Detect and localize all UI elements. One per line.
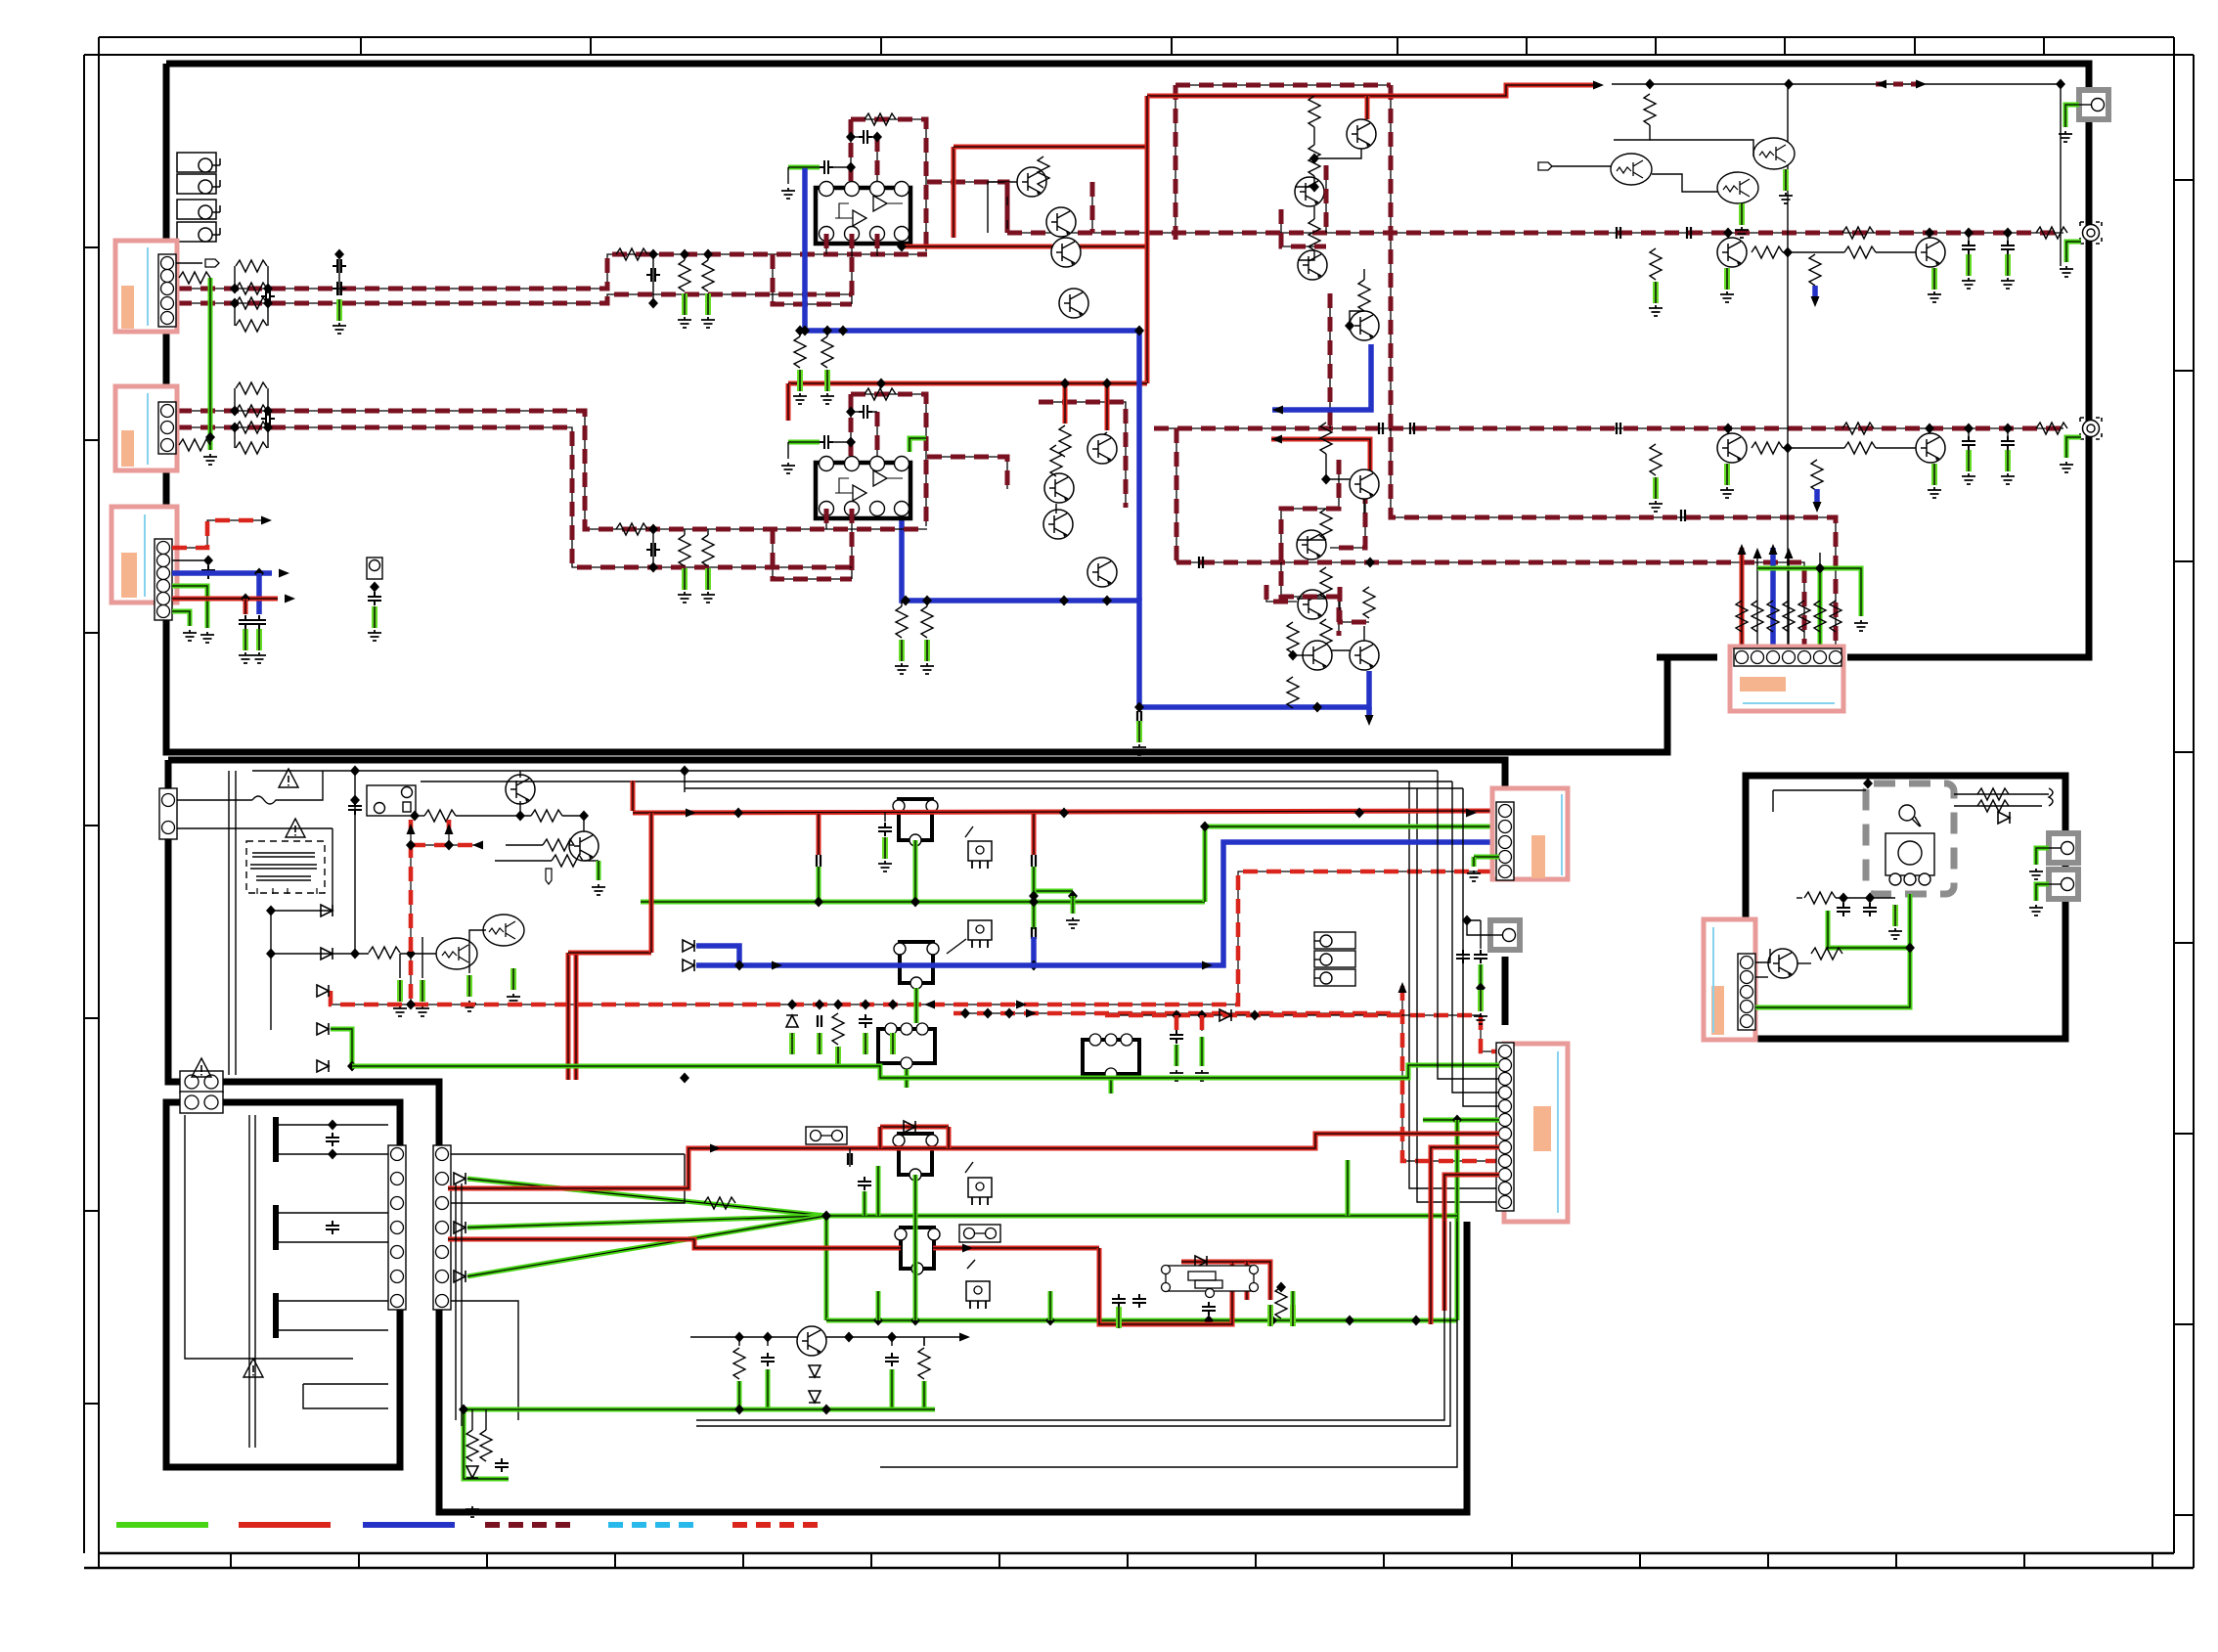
net (blue): [1814, 489, 1820, 507]
stub (green): [905, 1069, 909, 1088]
ground: [333, 323, 346, 334]
ground: [781, 463, 795, 473]
ground lead: [1292, 1305, 1294, 1326]
junction: [680, 766, 689, 777]
diode: [683, 940, 694, 952]
op-amp IC1: [816, 188, 910, 244]
net (red): [878, 1127, 883, 1148]
wire: [684, 529, 686, 535]
ground lead: [1655, 282, 1657, 303]
pin RY4: [885, 1023, 897, 1035]
connector CN3 box: [111, 507, 177, 603]
bead: [1137, 711, 1141, 723]
mains wires: [177, 771, 333, 1075]
stub: [2007, 428, 2009, 436]
resistor: [1842, 227, 1874, 239]
ground lead: [826, 370, 828, 391]
net drop (green) x1057: [1032, 867, 1037, 902]
junction: [795, 326, 805, 336]
arrow: [1026, 1009, 1037, 1018]
ground lead green: [1138, 721, 1140, 742]
capacitor: [1132, 1294, 1146, 1308]
warning mark: [244, 1359, 263, 1377]
junction: [1645, 79, 1655, 90]
junction: [922, 596, 932, 606]
ground: [463, 1001, 476, 1011]
junction: [1102, 379, 1112, 389]
net (dashed): [876, 412, 878, 457]
net (red): [1444, 1175, 1499, 1311]
net (blue): [696, 842, 1499, 965]
resistor: [543, 839, 574, 851]
junction: [1288, 650, 1298, 661]
net gnd bundle (green): [1818, 568, 1823, 651]
net heater R (red): [574, 953, 579, 1080]
net (green): [331, 1029, 352, 1066]
resistor: [1038, 156, 1049, 188]
capacitor C23: [859, 405, 872, 419]
junction: [263, 298, 273, 309]
capacitor: [333, 282, 346, 295]
net (red): [1105, 383, 1110, 430]
junction: [876, 379, 886, 389]
net L-in cold (dashed): [177, 294, 852, 303]
junction: [960, 1008, 970, 1019]
junction: [648, 562, 658, 573]
arrow: [1271, 435, 1282, 444]
resistor: [1309, 145, 1320, 176]
pin RY4: [901, 1023, 912, 1035]
ground lead: [2007, 450, 2009, 471]
resistor: [1804, 892, 1836, 904]
capacitor: [878, 823, 892, 836]
resistor bundle x1829: [1783, 601, 1795, 632]
net (red dashed): [1105, 1015, 1499, 1051]
stub: [926, 601, 928, 606]
junction: [1452, 1115, 1462, 1126]
net (blue): [696, 946, 739, 965]
junction: [350, 949, 360, 960]
ground: [252, 652, 266, 663]
switch SW1: [2049, 788, 2053, 806]
transistor Q201: [1768, 949, 1797, 978]
net (green): [1203, 826, 1208, 902]
salmon label CN4: [1740, 677, 1786, 692]
net IC2 loop (dashed): [773, 529, 852, 579]
junction: [266, 949, 276, 960]
relay RL2: [177, 174, 220, 194]
wire: [1614, 125, 1650, 140]
arrow: [962, 1244, 973, 1253]
wire: [872, 136, 877, 138]
capacitor: [368, 592, 381, 605]
resistor: [1358, 280, 1370, 311]
stub: [849, 1148, 851, 1167]
net (green): [464, 1407, 935, 1412]
ground: [2029, 869, 2043, 879]
transistor Q1085227: [1046, 207, 1076, 237]
wires: [1467, 920, 1490, 949]
net (dashed): [1281, 209, 1326, 246]
ground: [895, 663, 909, 674]
net (red): [172, 597, 278, 602]
junction: [230, 284, 240, 294]
ground: [1928, 487, 1941, 498]
junction: [1267, 1316, 1277, 1326]
relay RL3: [177, 200, 220, 219]
net (dashed): [876, 137, 878, 182]
ground: [1720, 291, 1734, 302]
transistor Q1083499: [1044, 473, 1074, 503]
pin RY5 common: [1105, 1068, 1117, 1080]
ground lead: [1933, 268, 1935, 290]
transistor Q1098310: [1059, 289, 1088, 318]
junction: [1784, 79, 1794, 90]
arrow: [285, 595, 295, 603]
net (dashed): [1091, 182, 1093, 233]
connector CN1 box: [115, 241, 177, 332]
ground: [2001, 278, 2015, 289]
net supply ring left (dashed): [1175, 85, 1176, 240]
capacitor C21: [261, 412, 275, 425]
net (red dashed): [448, 820, 450, 845]
junction: [1925, 424, 1934, 434]
stub (green): [1291, 1291, 1296, 1305]
stub: [2007, 233, 2009, 241]
stub: [738, 1337, 740, 1346]
net drop (green) x837: [817, 867, 821, 902]
net (green): [1035, 889, 1073, 894]
salmon label CN7: [1711, 986, 1724, 1035]
ground lead green: [837, 1047, 839, 1068]
label line: [1743, 702, 1835, 704]
net bus (green): [826, 1318, 1457, 1323]
pin IC2 bottom x922: [895, 502, 909, 516]
wire: [286, 771, 323, 800]
junction: [347, 1061, 357, 1072]
junction: [887, 1332, 897, 1343]
resistor: [1320, 509, 1332, 540]
resistor: [1752, 246, 1783, 258]
junction: [1197, 1010, 1207, 1021]
stub: [826, 331, 828, 336]
stub (green): [922, 1381, 927, 1409]
net (red): [786, 383, 791, 421]
net (red dashed): [1402, 986, 1499, 1161]
wire: [1876, 251, 1916, 253]
arrow: [472, 841, 483, 850]
junction: [328, 1149, 337, 1160]
junction: [406, 1000, 416, 1010]
bead: [1032, 855, 1036, 867]
transistor Q102: [569, 831, 599, 861]
resistor: [1842, 423, 1874, 434]
label line: [1712, 927, 1714, 1033]
net shield jumper (dashed): [1876, 82, 1927, 87]
junction: [846, 407, 856, 418]
junction: [814, 897, 823, 908]
transistor Q1341557: [1297, 530, 1326, 559]
junction: [821, 1405, 831, 1415]
junction: [350, 766, 360, 777]
resistor: [531, 810, 562, 822]
bead: [1032, 927, 1036, 939]
ground: [200, 632, 214, 643]
connector CN5 box: [1492, 788, 1568, 879]
net (blue): [172, 570, 272, 576]
stub (green) 936: [913, 1291, 918, 1320]
transistor Q110: [797, 1326, 826, 1356]
junction: [1723, 228, 1733, 239]
capacitor: [859, 1014, 872, 1028]
primary wires: [415, 771, 599, 861]
lamp LED1: [1899, 805, 1921, 826]
pin IC1 bottom x871: [845, 227, 860, 242]
resistor R14: [236, 320, 267, 332]
label line: [147, 247, 149, 326]
junction: [1905, 943, 1915, 954]
resistor: [1320, 567, 1332, 599]
ground: [2001, 473, 2015, 484]
pin RY5: [1089, 1034, 1101, 1046]
ground lead green: [2066, 242, 2081, 262]
net bus (green): [826, 1214, 1457, 1219]
wire: [851, 411, 859, 413]
stub (red dashed): [1201, 1015, 1203, 1031]
net bias (dashed): [1281, 460, 1339, 548]
ground lead green: [468, 975, 470, 997]
diode: [1220, 1009, 1231, 1021]
connector CN4 pins: [1734, 648, 1842, 666]
junction: [1068, 891, 1078, 902]
net -V trunk (blue): [1136, 331, 1142, 601]
connector CN12 pins: [433, 1145, 451, 1310]
wire: [787, 167, 789, 184]
resistor: [1287, 622, 1299, 653]
ground: [701, 592, 715, 603]
ground lead: [1726, 268, 1728, 290]
net IC1 loop (dashed): [773, 254, 852, 304]
junction: [1134, 326, 1144, 336]
net gnd (green): [172, 586, 207, 628]
net fan (green) 1255: [467, 1216, 826, 1228]
connector CN2 box: [115, 386, 177, 470]
resistor R12: [236, 283, 267, 294]
wire: [787, 442, 789, 459]
ground lead: [1785, 169, 1787, 191]
net drop (red) x837: [817, 814, 821, 855]
connector CN10: [159, 788, 177, 839]
resistor: [1752, 442, 1783, 454]
legend blue: [363, 1522, 455, 1528]
connector CN13: [180, 1071, 223, 1093]
wire: [833, 166, 851, 168]
salmon label CN2: [121, 430, 134, 467]
diode: [683, 960, 694, 971]
resistor bundle x1861: [1814, 601, 1826, 632]
ground: [368, 630, 381, 641]
junction: [1204, 1316, 1214, 1326]
arrow: [261, 516, 272, 525]
pin RY5: [1121, 1034, 1132, 1046]
net IC1 feedback (dashed): [851, 119, 926, 251]
power supply block border: [168, 760, 1505, 1512]
junction: [459, 1405, 468, 1415]
motor unit (gray dashed): [1866, 783, 1954, 894]
net (dashed): [1325, 165, 1327, 233]
junction: [763, 1332, 773, 1343]
junction: [266, 906, 276, 916]
stub (green): [1472, 857, 1477, 867]
net (dashed): [1176, 428, 1177, 562]
wire: [1876, 447, 1916, 449]
ground lead: [1726, 464, 1728, 485]
legend maroon dashed: [485, 1522, 577, 1528]
ground lead: [926, 640, 928, 661]
net (green): [876, 1166, 881, 1216]
stub (green) 898: [876, 1291, 881, 1320]
net V+ runner (red): [1145, 96, 1150, 383]
junction: [1276, 1282, 1286, 1293]
net (dashed): [1266, 585, 1297, 602]
capacitor: [1962, 436, 1975, 450]
wire: [707, 529, 709, 535]
junction: [821, 1211, 831, 1222]
diode zener: [809, 1391, 821, 1403]
wire: [1783, 447, 1844, 449]
ground: [1066, 917, 1080, 928]
resistor: [1811, 460, 1823, 491]
transistor Q-fet3: [1753, 138, 1795, 169]
stub (green) 1074: [1048, 1291, 1053, 1320]
wire: [172, 559, 208, 561]
resistor R17: [702, 260, 714, 291]
ground lead: [1968, 450, 1970, 471]
net (blue): [1031, 937, 1037, 965]
resistor R24: [236, 442, 267, 454]
relay RY1: [367, 785, 416, 816]
net (red): [631, 781, 636, 811]
wire: [209, 437, 211, 445]
junction: [1964, 228, 1974, 239]
junction: [350, 795, 360, 806]
ground: [2060, 462, 2073, 472]
resistor R16: [679, 260, 690, 291]
arrow: [445, 824, 454, 834]
transformer sub-block border: [166, 1102, 400, 1467]
resistor: [1809, 254, 1821, 286]
stub (green): [1175, 1045, 1179, 1066]
pointer: [967, 1260, 975, 1269]
pin IC1 bottom x897: [870, 227, 885, 242]
junction: [263, 284, 273, 294]
pin IC2 bottom x897: [870, 502, 885, 516]
pin RY5: [1105, 1034, 1117, 1046]
ground lead green: [819, 1033, 821, 1054]
salmon label CN3: [121, 553, 137, 598]
diode fan 1205: [454, 1173, 466, 1184]
package TO220 REG2: [968, 920, 992, 948]
net (red): [568, 951, 651, 956]
junction: [787, 1000, 797, 1010]
net gnd (green): [208, 278, 213, 450]
junction: [1102, 596, 1112, 606]
net loop (red): [1099, 1248, 1270, 1324]
net to CN4 pin1 (red): [1740, 548, 1745, 651]
net (dashed): [1340, 587, 1369, 622]
ground: [2060, 266, 2073, 277]
wire: [707, 254, 709, 260]
warning mark: [286, 819, 305, 837]
capacitor: [1474, 950, 1487, 963]
net (green): [1205, 825, 1499, 829]
transistor Q1395670: [1350, 641, 1379, 670]
net B+ (red): [633, 811, 1499, 813]
pin IC1 top x897: [870, 182, 885, 197]
resistor: [832, 1013, 844, 1045]
junction: [1964, 424, 1974, 434]
capacitor: [495, 1458, 509, 1472]
block edge segment: [1502, 957, 1509, 1025]
relay RY3: [895, 1228, 940, 1274]
resistor bundle x1877: [1830, 601, 1841, 632]
ground: [1649, 305, 1663, 316]
net bias (dashed): [1281, 548, 1339, 636]
junction: [910, 897, 920, 908]
connector output port: [2080, 222, 2102, 244]
pin IC1 bottom x845: [820, 227, 834, 242]
package TO220: [968, 1178, 992, 1205]
ground: [920, 663, 934, 674]
ground: [1649, 501, 1663, 512]
net supply ring top (dashed): [1176, 84, 1391, 86]
ground lead: [901, 640, 903, 661]
fuse F2: [806, 1127, 847, 1144]
net IC2 pin (dashed): [851, 509, 853, 579]
resistor Rc948: [921, 606, 933, 638]
capacitor: [885, 1353, 899, 1366]
capacitor: [1170, 1030, 1183, 1044]
ground: [2059, 131, 2072, 142]
connector CN4 box: [1730, 647, 1843, 711]
transistor Q1082536: [1043, 510, 1073, 539]
net V+ L (red): [1147, 85, 1598, 96]
net IC1 in (dashed): [850, 119, 852, 182]
connector CN13: [180, 1092, 223, 1113]
diode D13: [1195, 1256, 1207, 1268]
net IC1 pin (dashed): [851, 234, 853, 304]
net (green): [913, 1175, 918, 1320]
arrow: [1365, 715, 1374, 726]
wire: [1652, 174, 1717, 192]
bead: [1617, 423, 1620, 434]
net (red): [1431, 1147, 1499, 1324]
transistor Q-a3: [1298, 250, 1327, 280]
stub: [799, 331, 801, 336]
transistor Q-d2: [1303, 641, 1332, 670]
lamp L3: [1314, 969, 1355, 986]
arrow: [1593, 81, 1604, 90]
transistor Qp238: [1916, 238, 1945, 267]
junction: [406, 949, 416, 960]
junction: [648, 298, 658, 309]
package TO220: [966, 1281, 990, 1309]
arrow: [924, 1001, 935, 1009]
connector CN6 box: [1504, 1044, 1568, 1222]
net (blue): [1812, 286, 1818, 301]
lamp L2: [1314, 951, 1355, 967]
junction: [873, 1316, 883, 1326]
